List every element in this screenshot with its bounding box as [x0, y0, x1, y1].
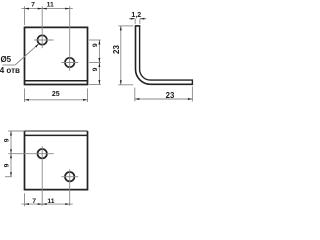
extension lines for 25 dim: [24, 89, 26, 103]
L top end cap: [135, 25, 141, 27]
L right end cap: [191, 79, 193, 85]
centerline hole C2 vertical: [69, 169, 71, 206]
arrows at shared extension x=42.2 bottom: [38, 203, 47, 205]
svg-text:23: 23: [166, 91, 175, 100]
arrow top of right 9 dim: [98, 40, 100, 45]
svg-text:9: 9: [92, 67, 99, 71]
arrows of dim 25: [25, 99, 88, 101]
extension line right for bottom 23: [191, 86, 193, 101]
arrows at shared extension x=42.2: [38, 8, 47, 10]
svg-text:Ø5: Ø5: [0, 55, 11, 64]
centerline hole C1 horizontal with extension: [8, 153, 54, 155]
arrow bottom of right 9 dim: [98, 80, 100, 85]
extension line right at bottom edge level: [89, 84, 101, 86]
leader arrow at hole A1: [35, 44, 39, 48]
svg-text:25: 25: [52, 91, 60, 98]
arrows of left 23 dim: [120, 26, 122, 85]
extension line right at hole A1 level: [89, 39, 101, 41]
centerline hole C1 vertical: [41, 146, 43, 206]
L outer contour: [136, 26, 193, 84]
centerline hole C2 horizontal: [62, 176, 79, 178]
arrow left of dim 7: [25, 8, 30, 10]
arrow top of left 9 dim: [10, 131, 12, 136]
leader diagonal to hole A1: [15, 44, 38, 65]
hole A1: [38, 35, 47, 44]
hole C2: [65, 172, 74, 181]
arrow bottom of left 9 dim: [10, 172, 12, 177]
centerline hole A1 horizontal: [34, 39, 54, 41]
dimension line 1,2 left segment: [129, 18, 135, 20]
svg-text:9: 9: [92, 43, 99, 47]
svg-text:7: 7: [32, 198, 36, 205]
far edge thin line view C: [25, 130, 88, 132]
dimension line 1,2 right segment: [140, 18, 146, 20]
extension stub at hole C2 level left: [5, 176, 12, 178]
extension line below left edge view C: [24, 193, 26, 206]
centerline hole A2 vertical: [69, 6, 71, 71]
arrow right of dim 11: [65, 8, 70, 10]
centerline hole A2 horizontal: [62, 62, 79, 64]
dimension line 7-11 bottom: [22, 203, 73, 205]
dimension line 9-9 left: [10, 131, 12, 177]
extension line left for bottom 23: [134, 88, 136, 102]
arrow right of 1,2: [140, 18, 145, 20]
svg-text:9: 9: [4, 138, 11, 142]
arrow left of 1,2: [131, 18, 136, 20]
svg-text:23: 23: [112, 45, 121, 54]
svg-text:9: 9: [4, 163, 11, 167]
centerline hole A1 vertical: [41, 6, 43, 48]
plate outline view A: [25, 27, 88, 84]
svg-text:7: 7: [31, 1, 35, 8]
dimension line 7-11 top: [22, 8, 73, 10]
extension line right at hole A2 level: [89, 62, 101, 64]
arrow left of bottom 7: [25, 203, 30, 205]
extension line top for left 23: [118, 25, 133, 27]
arrows at shared extension y=62.5 right: [98, 58, 100, 67]
dimension line 23 left: [120, 26, 122, 85]
arrows at shared extension y=153.7 left: [10, 149, 12, 158]
extension line left at far edge level: [8, 130, 24, 132]
hole A2: [65, 58, 74, 67]
svg-text:1,2: 1,2: [131, 12, 141, 19]
svg-text:11: 11: [47, 198, 54, 205]
extension lines for 1,2 dim: [134, 19, 136, 24]
svg-text:4 отв: 4 отв: [0, 66, 20, 75]
bend line view A: [25, 80, 88, 82]
L inner contour: [140, 26, 193, 80]
arrow right of bottom 11: [65, 203, 70, 205]
dimension line 9-9 right: [98, 40, 100, 85]
plate outline view C: [25, 131, 88, 190]
dimension line 25: [25, 99, 88, 101]
leader shelf for hole note: [3, 64, 16, 66]
arrows of bottom 23 dim: [135, 98, 193, 100]
dimension line 23 bottom: [135, 98, 193, 100]
extension line above left edge: [24, 6, 26, 25]
hole C1: [38, 149, 47, 158]
bend line view C: [25, 134, 88, 136]
extension line bottom for left 23: [118, 84, 133, 86]
svg-text:11: 11: [47, 1, 54, 8]
